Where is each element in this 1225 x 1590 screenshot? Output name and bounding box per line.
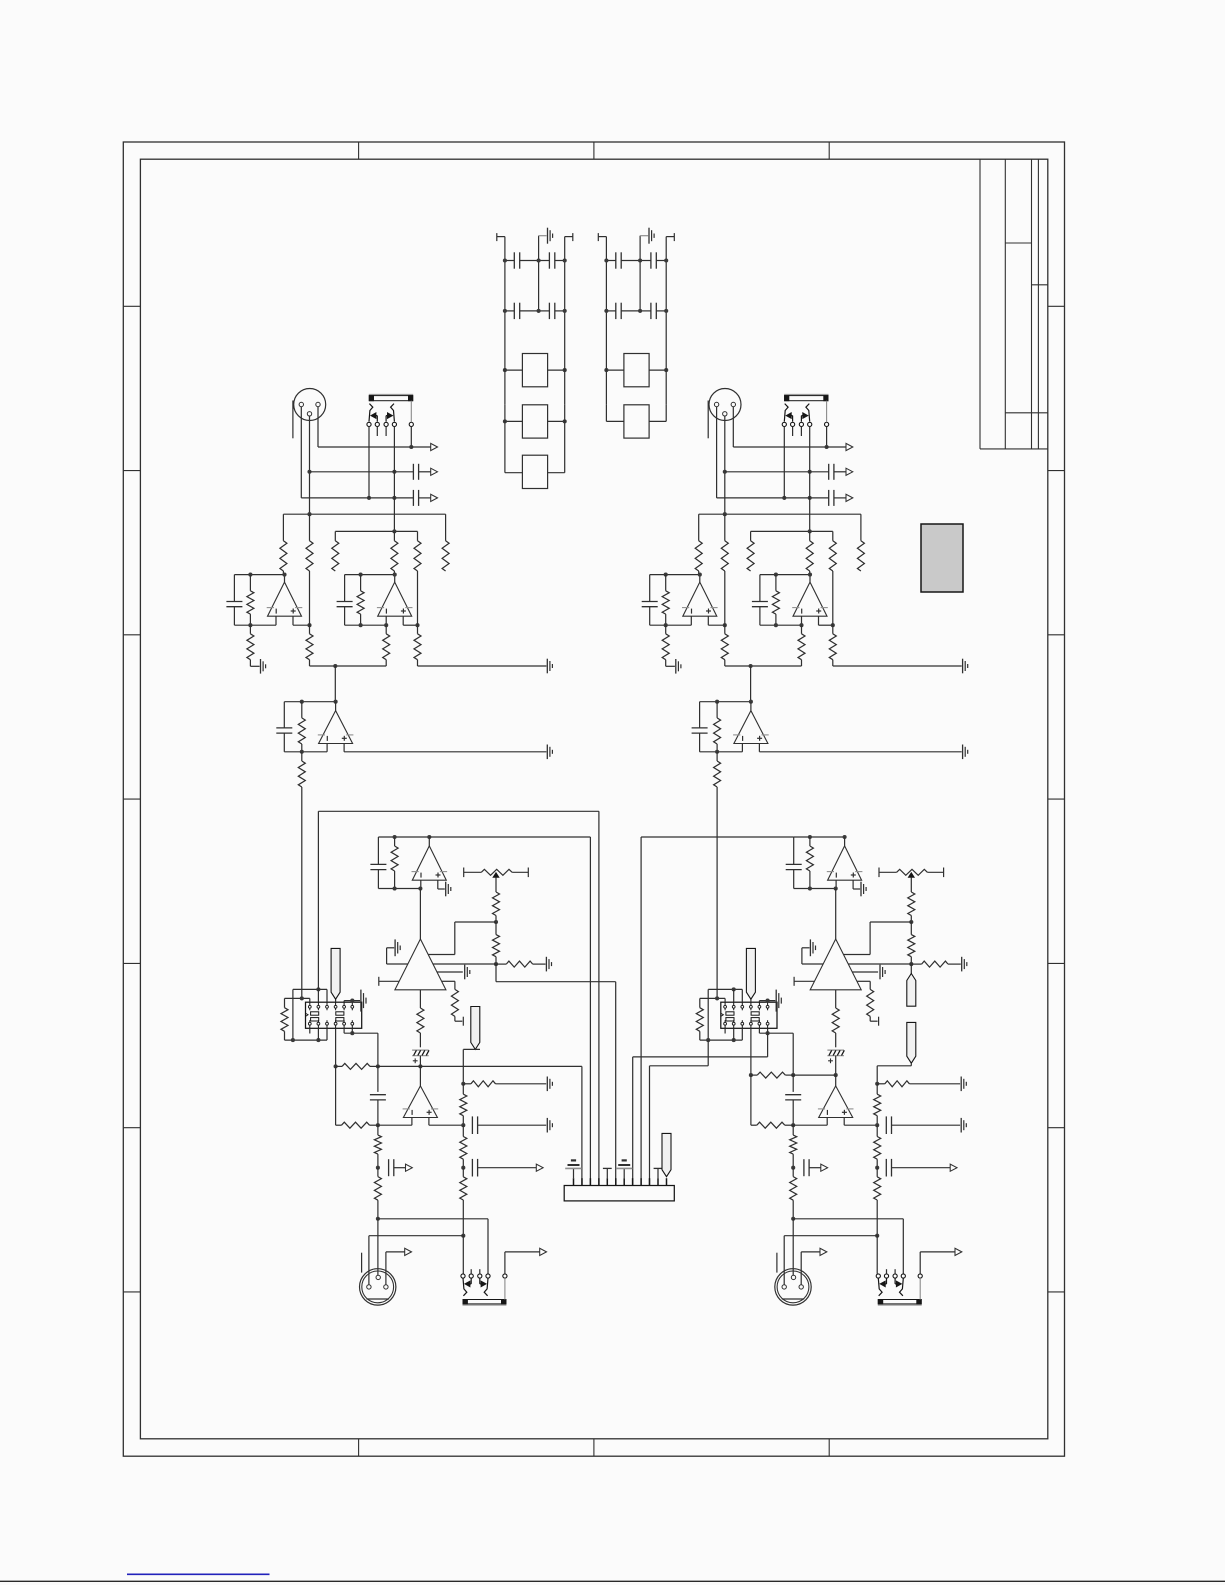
stage4 loop wire	[750, 1075, 752, 1125]
relay contact bars	[726, 1012, 734, 1015]
output switch arrow 1	[886, 1278, 888, 1284]
U5 plus rail to ladder	[429, 1124, 463, 1126]
ground	[546, 1118, 548, 1133]
supply capacitor row wire left	[505, 260, 514, 262]
wire R2 node down + resistor R9	[309, 571, 311, 625]
supply ground	[640, 235, 648, 237]
U4 right pin to ground	[437, 971, 463, 973]
resistor R12	[301, 702, 303, 718]
stage4 loop wire	[335, 1066, 337, 1125]
wire to U5 apex	[419, 1066, 421, 1086]
resistor R28	[876, 1168, 878, 1177]
relay polarity mark	[721, 1013, 724, 1016]
U1a plus wire to R2 node	[708, 624, 725, 626]
U2 input stubs	[741, 744, 743, 752]
capacitor C1a	[233, 575, 235, 602]
U4 right pin via resistor R18	[857, 980, 870, 982]
resistor R7a	[249, 575, 251, 591]
resistor R1	[698, 514, 700, 541]
ground	[445, 882, 447, 897]
U5 minus rail	[793, 1124, 827, 1126]
capacitor C3	[793, 837, 795, 865]
U1b input stubs	[385, 616, 387, 625]
wire R4 to op-amp U1b apex	[809, 571, 811, 575]
ground	[464, 965, 466, 980]
output switch actuator bar	[463, 1304, 507, 1306]
ground	[546, 745, 548, 760]
input switch wiper 2	[391, 404, 395, 422]
resistor R24	[792, 1168, 794, 1177]
resistor R3	[750, 531, 752, 540]
U2 minus rail	[700, 751, 743, 753]
power amplifier U4	[395, 939, 446, 990]
capacitor C2	[699, 702, 701, 728]
ground	[545, 957, 547, 972]
connector J3 body	[564, 1186, 674, 1201]
resistor R10 under U1b minus	[385, 625, 387, 634]
supply box U3	[522, 455, 547, 488]
bus1 wire	[283, 513, 445, 515]
title block	[979, 159, 981, 449]
power amplifier U4	[810, 939, 861, 990]
U4 right pin to R16 node	[433, 963, 496, 965]
ground	[546, 1077, 548, 1092]
resistor R26	[462, 1084, 464, 1094]
XLR pin3 arrow	[385, 1252, 387, 1285]
input switch pin stubs	[376, 427, 378, 437]
switch pin4 wire down	[809, 427, 811, 532]
relay pins	[308, 1005, 311, 1008]
resistor R17 to ground	[911, 963, 921, 965]
U1a minus rail	[234, 624, 276, 626]
U3 plus wire to ground	[437, 880, 439, 889]
rail1 resistor R21	[751, 1074, 757, 1076]
supply rail top-right terminal	[565, 236, 573, 238]
op-amp U1a	[683, 582, 717, 616]
connector pin11 terminator	[657, 1168, 659, 1178]
U1a input stubs	[275, 616, 277, 625]
U1b minus rail	[345, 624, 387, 626]
resistor R16	[495, 922, 497, 935]
connector pin1 earth	[573, 1168, 575, 1178]
U2 plus wire to ground	[759, 751, 961, 753]
wire sum rail to U2	[334, 666, 336, 702]
supply rail left vertical	[504, 237, 506, 354]
resistor R4	[809, 531, 811, 540]
supply junction dots	[503, 258, 507, 262]
supply capacitor row wire left	[606, 310, 615, 312]
U5 minus rail	[378, 1124, 412, 1126]
connector J3 pins	[573, 1178, 575, 1185]
test pill at connector pin12	[662, 1133, 671, 1176]
output XLR connector J2	[360, 1269, 396, 1305]
wire ladder to output switch pin1	[876, 1236, 878, 1274]
stage1 sum rail	[725, 665, 802, 667]
wire XLR pin1 up to ladder	[368, 1236, 370, 1285]
trimmer wiper arrow	[493, 873, 499, 878]
relay rail C	[285, 1039, 328, 1041]
supply capacitor C row left	[513, 252, 515, 268]
supply rail right vertical	[564, 237, 566, 354]
relay pin5 bottom wire	[343, 1028, 345, 1033]
output XLR connector J2	[775, 1269, 811, 1305]
supply box U2	[624, 405, 649, 438]
U3 input stubs	[835, 880, 837, 888]
output switch wiper 1	[463, 1278, 467, 1296]
output switch pin5 arrow	[919, 1252, 921, 1274]
output switch wiper 2	[484, 1278, 488, 1296]
output switch wiper 2	[900, 1278, 904, 1296]
relay pin5-6 top ground rail	[758, 1001, 760, 1003]
input switch arrow 1	[792, 416, 794, 422]
supply box U1	[624, 354, 649, 387]
relay rail A	[708, 988, 742, 990]
supply junction dots	[503, 309, 507, 313]
capacitor C5	[377, 1066, 379, 1092]
wire to output XLR pin2	[377, 1219, 379, 1276]
U3 input stubs	[420, 880, 422, 888]
output switch arrow 2	[894, 1278, 896, 1284]
resistor R16	[910, 922, 912, 935]
switch pin1 wire down	[783, 427, 785, 498]
resistor R13	[301, 752, 303, 761]
wire to output switch pin4	[378, 1218, 488, 1220]
rail1 wire to connector pin2	[420, 1065, 582, 1067]
U4 left pin to ground	[802, 963, 823, 965]
U4 left pin terminal	[794, 980, 814, 982]
resistor R25 to ground	[877, 1083, 885, 1085]
output switch pin5 arrow	[504, 1252, 506, 1274]
input switch wiper 1	[784, 404, 788, 422]
U4 left pin terminal	[379, 980, 399, 982]
relay loop wire	[292, 989, 294, 1040]
U3 minus rail	[378, 888, 420, 890]
U2 top rail	[700, 701, 751, 703]
frame zone ticks left/right edges	[123, 305, 140, 307]
capacitor C5	[792, 1075, 794, 1092]
output switch pin2-3 stubs	[886, 1269, 888, 1274]
capacitor C8 to arrow	[885, 1159, 887, 1177]
resistor R25 to ground	[463, 1083, 471, 1085]
capacitor C8 to arrow	[471, 1159, 473, 1177]
bus2 wire	[335, 530, 417, 532]
U1b input stubs	[801, 616, 803, 625]
resistor R27	[876, 1125, 878, 1136]
supply rail top-left terminal	[497, 236, 505, 238]
wire ladder to output switch pin1	[462, 1236, 464, 1274]
ground	[546, 659, 548, 674]
bus2 wire	[751, 530, 833, 532]
resistor R10 under U1b minus	[801, 625, 803, 634]
relay pins	[724, 1005, 727, 1008]
relay loop wire	[707, 989, 709, 1040]
U3 minus rail	[794, 888, 836, 890]
output XLR chord	[367, 1298, 389, 1300]
output switch pin2-3 stubs	[470, 1269, 472, 1274]
relay contact bars	[311, 1012, 319, 1015]
test pill above relay pin4	[750, 999, 752, 1002]
resistor R7b	[360, 575, 362, 591]
U4 output resistor R19	[419, 990, 421, 1008]
wire R11 to ground	[833, 665, 962, 667]
output switch arrow 2	[479, 1278, 481, 1284]
line2 capacitor	[412, 464, 414, 480]
supply ground	[539, 235, 547, 237]
resistor R7a	[665, 575, 667, 591]
relay rail B	[285, 997, 310, 999]
relay K1 body	[306, 1002, 362, 1028]
relay left resistor R20	[699, 998, 701, 1007]
rail2 resistor R22	[751, 1124, 757, 1126]
input switch pin5 link to bar	[410, 401, 412, 423]
output switch pin5 link	[919, 1278, 921, 1299]
U1b top feedback rail	[760, 574, 810, 576]
U4 output resistor R19	[835, 990, 837, 1008]
connector pin7 earth	[623, 1168, 625, 1178]
resistor R5	[417, 531, 419, 540]
supply rail top-left terminal	[598, 236, 606, 238]
relay pin4 bottom wire to rail1	[335, 1028, 337, 1066]
footer blue underline	[127, 1573, 270, 1575]
U3 plus wire to ground	[852, 880, 854, 889]
ground	[775, 990, 777, 1012]
op-amp U3	[428, 837, 430, 846]
resistor R4	[393, 531, 395, 540]
ground	[260, 659, 262, 674]
resistor R24	[377, 1168, 379, 1177]
ground	[962, 745, 964, 760]
op-amp U3	[844, 837, 846, 846]
supply middle rail	[639, 236, 641, 311]
U5 input stubs	[411, 1118, 413, 1126]
supply rail top-right terminal	[666, 236, 674, 238]
gray filled box	[921, 524, 963, 592]
drawing frame inner border	[140, 159, 1047, 1439]
wire R1 to op-amp U1a apex	[698, 571, 700, 575]
capacitor C1b	[759, 575, 761, 602]
output XLR chord	[782, 1298, 804, 1300]
resistor R7b	[775, 575, 777, 591]
input switch arrow 2	[385, 416, 387, 422]
U3 rail to connector pin3	[429, 836, 590, 838]
line2 capacitor	[828, 464, 830, 480]
line2 wire	[723, 470, 727, 474]
supply capacitor C row right	[640, 260, 651, 262]
U1a top feedback rail	[234, 574, 284, 576]
U2 plus wire to ground	[344, 751, 546, 753]
wire to output XLR pin2	[792, 1219, 794, 1276]
ground	[809, 939, 811, 956]
XLR pin3 arrow	[800, 1252, 802, 1285]
capacitor C6 to arrow	[388, 1159, 390, 1176]
ground	[860, 882, 862, 897]
relay polarity mark	[306, 1013, 309, 1016]
U1b minus rail	[760, 624, 802, 626]
bus1 wire	[699, 513, 861, 515]
wire R2 node down + resistor R9	[724, 571, 726, 625]
input switch S1 actuator bar	[784, 393, 828, 395]
input switch wiper 2	[806, 404, 810, 422]
relay rail A	[293, 988, 327, 990]
relay pin5 bottom wire	[758, 1028, 760, 1033]
input switch pin5 link to bar	[826, 401, 828, 423]
left channel relay line to connector pin4	[317, 811, 319, 989]
footer rule	[0, 1580, 1225, 1582]
supply capacitor C row left	[513, 303, 515, 319]
supply capacitor C row left	[615, 252, 617, 268]
op-amp U1b	[378, 582, 412, 616]
resistor R15	[495, 877, 497, 892]
U3 top rail	[378, 836, 429, 838]
input switch S1 actuator bar	[369, 393, 413, 395]
relay rail B	[700, 997, 725, 999]
wire XLR pin1 down	[716, 407, 718, 498]
output switch actuator bar	[878, 1304, 922, 1306]
U2 input stubs	[326, 744, 328, 752]
wire to output switch pin4	[793, 1218, 903, 1220]
input switch wiper 1	[369, 404, 373, 422]
resistor R17 to ground	[496, 963, 506, 965]
relay rail C	[700, 1039, 743, 1041]
U1a input stubs	[690, 616, 692, 625]
ladder node 1	[461, 1082, 465, 1086]
long wire R13 to relay rail	[716, 787, 718, 998]
switch pin4 wire down	[393, 427, 395, 532]
relay pin5-6 top ground rail	[343, 1001, 345, 1003]
U1b top feedback rail	[345, 574, 395, 576]
wire R5 node down + resistor R11	[417, 571, 419, 625]
U1b plus wire to R5 node	[819, 624, 833, 626]
output XLR shell stub	[361, 1253, 363, 1273]
input switch arrow 2	[800, 416, 802, 422]
wire R4 to op-amp U1b apex	[393, 571, 395, 575]
U3 top rail	[794, 836, 845, 838]
supply capacitor row wire left	[505, 310, 514, 312]
wire XLR pin1 down	[300, 407, 302, 498]
line1 wire	[733, 446, 826, 448]
U4 right pin to trimmer node	[844, 954, 871, 956]
supply box U2	[522, 405, 547, 438]
relay left resistor R20	[284, 998, 286, 1007]
U1a plus wire to R2 node	[293, 624, 310, 626]
supply capacitor C row right	[539, 260, 550, 262]
wire R1 to op-amp U1a apex	[282, 571, 284, 575]
wire U3 rail to power amp apex	[419, 889, 421, 940]
resistor R6	[860, 514, 862, 541]
resistor R5	[832, 531, 834, 540]
supply middle rail	[538, 236, 540, 311]
resistor R6	[445, 514, 447, 541]
resistor R28	[462, 1168, 464, 1177]
supply junction dots	[604, 258, 608, 262]
wire sum rail to U2	[750, 666, 752, 702]
line3 wire	[717, 497, 829, 499]
U5 plus rail to ladder	[844, 1124, 877, 1126]
relay pin4 bottom wire to rail1	[750, 1028, 752, 1075]
U1a minus rail	[650, 624, 692, 626]
op-amp U5	[819, 1086, 853, 1118]
input XLR shell stub	[707, 401, 709, 439]
input XLR shell stub	[292, 401, 294, 439]
output switch wiper 1	[878, 1278, 882, 1296]
U4 right pin via resistor R18	[442, 980, 455, 982]
polarized capacitor C4	[827, 1049, 844, 1051]
capacitor C6 to arrow	[803, 1159, 805, 1176]
supply rail left vertical	[605, 237, 607, 354]
ground	[879, 965, 881, 980]
test pill above relay pin4	[335, 999, 337, 1002]
rail1 wire	[793, 1074, 836, 1076]
supply capacitor C row right	[640, 310, 651, 312]
resistor R12	[716, 702, 718, 718]
supply box U1	[522, 354, 547, 387]
U1b plus wire to R5 node	[403, 624, 417, 626]
wire U3 rail to power amp apex	[835, 889, 837, 940]
line1 wire	[318, 446, 411, 448]
rail2 resistor R22	[336, 1124, 342, 1126]
op-amp U1b	[793, 582, 827, 616]
ground	[961, 957, 963, 972]
resistor R8a to ground	[665, 625, 667, 634]
capacitor C7 to ground	[471, 1116, 473, 1134]
supply capacitor C row right	[539, 310, 550, 312]
test pill at ladder top	[471, 1007, 480, 1050]
capacitor C1a	[649, 575, 651, 602]
input switch arrow 1	[376, 416, 378, 422]
resistor R2	[724, 514, 726, 541]
ground	[960, 1118, 962, 1133]
resistor R14	[809, 837, 811, 846]
U4 right pin to R16 node	[848, 963, 911, 965]
op-amp U2	[750, 702, 752, 711]
ground	[675, 659, 677, 674]
right channel relay pin5 net to connector pin8	[767, 1033, 769, 1057]
polarized capacitor C4	[412, 1049, 429, 1051]
line3 capacitor	[828, 490, 830, 506]
line3 wire	[301, 497, 413, 499]
input XLR connector J1	[294, 389, 326, 421]
relay K1 body	[721, 1002, 777, 1028]
wire XLR pin1 up to ladder	[783, 1236, 785, 1285]
resistor R3	[334, 531, 336, 540]
line2 wire	[307, 470, 311, 474]
resistor R13	[716, 752, 718, 761]
line3 capacitor	[412, 490, 414, 506]
U5 input stubs	[826, 1118, 828, 1126]
supply capacitor row wire left	[606, 260, 615, 262]
switch pin1 wire down	[368, 427, 370, 498]
wire R11 to ground	[418, 665, 547, 667]
capacitor C3	[377, 837, 379, 865]
ground	[960, 1077, 962, 1092]
trimmer wiper arrow	[908, 873, 914, 878]
test pill pair	[910, 964, 912, 973]
relay pin1 bottom stub	[724, 1028, 726, 1033]
resistor R1	[282, 514, 284, 541]
input XLR connector J1	[709, 389, 741, 421]
resistor R14	[394, 837, 396, 846]
wire R5 node down + resistor R11	[832, 571, 834, 625]
supply rail right vertical	[665, 237, 667, 354]
wire XLR pin2 down	[724, 416, 726, 514]
ground	[360, 990, 362, 1012]
resistor R27	[462, 1125, 464, 1136]
rail1 wire	[378, 1065, 421, 1067]
resistor R23	[377, 1125, 379, 1135]
op-amp U1a	[268, 582, 302, 616]
supply junction dots	[604, 309, 608, 313]
op-amp U2	[335, 702, 337, 711]
